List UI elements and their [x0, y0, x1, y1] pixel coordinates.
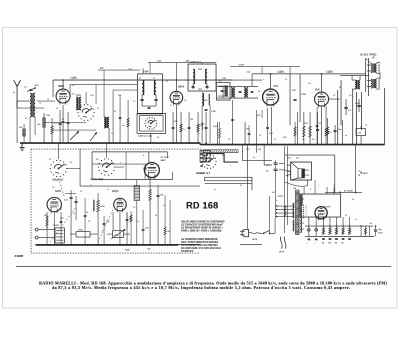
- svg-text:1n: 1n: [355, 219, 357, 221]
- svg-text:1,5K: 1,5K: [128, 69, 133, 71]
- svg-text:6AQ5: 6AQ5: [112, 190, 119, 193]
- svg-text:47n: 47n: [308, 83, 311, 85]
- svg-text:50: 50: [155, 215, 157, 217]
- svg-text:47: 47: [240, 185, 242, 187]
- svg-text:47: 47: [139, 78, 141, 80]
- svg-text:1n: 1n: [170, 105, 172, 107]
- svg-text:0,5: 0,5: [349, 95, 352, 97]
- svg-text:1n: 1n: [302, 139, 304, 141]
- svg-text:6V6: 6V6: [315, 89, 320, 92]
- svg-text:5-25: 5-25: [34, 85, 39, 87]
- svg-text:TM: TM: [293, 188, 296, 190]
- svg-text:x: x: [263, 79, 264, 81]
- svg-text:220K: 220K: [301, 94, 307, 96]
- svg-text:2°MF 10,7: 2°MF 10,7: [190, 62, 201, 64]
- svg-text:744: 744: [37, 124, 40, 126]
- svg-text:350V: 350V: [378, 233, 383, 235]
- svg-text:5n: 5n: [274, 139, 276, 141]
- svg-text:S3: S3: [96, 159, 98, 161]
- svg-text:RETE: RETE: [279, 252, 285, 254]
- svg-text:3-30: 3-30: [90, 95, 94, 97]
- svg-text:0,5M: 0,5M: [114, 235, 119, 237]
- svg-text:2n: 2n: [253, 157, 255, 159]
- svg-text:2n: 2n: [183, 129, 185, 131]
- svg-text:RD 168: RD 168: [186, 201, 218, 211]
- svg-text:STADI ALT.: STADI ALT.: [52, 179, 64, 182]
- svg-text:0,02: 0,02: [287, 165, 291, 167]
- svg-text:S1: S1: [49, 159, 51, 161]
- svg-text:x: x: [318, 185, 319, 187]
- svg-text:6AV6: 6AV6: [55, 190, 62, 193]
- svg-text:6AF7: 6AF7: [161, 159, 167, 162]
- svg-text:2n: 2n: [258, 91, 260, 93]
- svg-text:4n: 4n: [352, 199, 354, 201]
- svg-text:0,5: 0,5: [72, 85, 75, 87]
- svg-text:315: 315: [247, 72, 250, 74]
- svg-text:6T8: 6T8: [274, 85, 279, 88]
- svg-text:2n: 2n: [90, 185, 92, 187]
- svg-text:L5: L5: [97, 108, 99, 110]
- svg-text:4,7: 4,7: [133, 101, 136, 103]
- svg-text:5n: 5n: [73, 213, 75, 215]
- svg-text:x: x: [230, 165, 231, 167]
- svg-text:6BE6: 6BE6: [58, 85, 65, 88]
- svg-text:a: a: [120, 162, 121, 164]
- svg-text:25: 25: [365, 125, 367, 127]
- svg-text:3M: 3M: [258, 149, 261, 151]
- svg-text:FONO: FONO: [53, 225, 59, 227]
- svg-text:x: x: [199, 133, 200, 135]
- svg-text:1M: 1M: [44, 215, 47, 217]
- svg-text:50: 50: [86, 212, 88, 214]
- svg-text:6BA6: 6BA6: [178, 86, 185, 89]
- svg-text:da 87,5 a 93,5 Mc/s. Media fre: da 87,5 a 93,5 Mc/s. Media frequenza a 4…: [52, 285, 350, 290]
- svg-text:50: 50: [25, 118, 27, 120]
- svg-text:S2: S2: [70, 162, 72, 164]
- svg-text:1n: 1n: [111, 133, 113, 135]
- svg-text:16μ: 16μ: [338, 129, 341, 131]
- svg-text:25μ: 25μ: [106, 221, 109, 223]
- svg-text:OHM x 1000; M = OHM x 1.000.00: OHM x 1000; M = OHM x 1.000.000): [181, 230, 221, 233]
- svg-text:47: 47: [114, 111, 116, 113]
- svg-text:b: b: [143, 155, 144, 157]
- svg-text:220: 220: [283, 137, 286, 139]
- svg-text:5: 5: [310, 189, 311, 191]
- svg-text:3n: 3n: [163, 205, 165, 207]
- svg-text:0,02: 0,02: [269, 133, 273, 135]
- svg-text:0,1: 0,1: [319, 123, 322, 125]
- svg-text:15: 15: [219, 81, 221, 83]
- svg-text:47: 47: [166, 81, 168, 83]
- svg-text:+125V: +125V: [70, 77, 77, 80]
- svg-text:0,5: 0,5: [52, 187, 55, 189]
- svg-text:+AB: +AB: [185, 59, 190, 62]
- svg-text:LP: LP: [372, 58, 375, 60]
- svg-text:47K: 47K: [292, 90, 296, 92]
- svg-text:1n: 1n: [107, 189, 109, 191]
- svg-text:+250V: +250V: [277, 71, 284, 74]
- svg-text:140V: 140V: [363, 173, 369, 175]
- svg-text:0,1: 0,1: [122, 125, 125, 127]
- svg-text:+250V: +250V: [326, 71, 333, 74]
- svg-text:RETE: RETE: [252, 239, 258, 241]
- svg-text:25: 25: [46, 227, 48, 229]
- svg-text:1°MF: 1°MF: [143, 72, 149, 74]
- svg-text:47: 47: [259, 135, 261, 137]
- svg-text:GT 65-P: GT 65-P: [161, 157, 170, 159]
- svg-text:TM: TM: [328, 243, 331, 245]
- svg-text:3°MF 10,7+455: 3°MF 10,7+455: [138, 136, 153, 138]
- svg-text:AL TELAIO: AL TELAIO: [344, 190, 354, 193]
- svg-text:455: 455: [204, 100, 207, 102]
- svg-text:C4: C4: [56, 108, 58, 110]
- svg-text:1M: 1M: [160, 194, 163, 196]
- svg-text:4,7: 4,7: [133, 207, 136, 209]
- svg-text:AL ALT. PARL.: AL ALT. PARL.: [360, 53, 377, 57]
- svg-text:1n: 1n: [214, 189, 216, 191]
- svg-text:12: 12: [153, 78, 155, 80]
- svg-text:300: 300: [19, 127, 22, 129]
- svg-text:0,05: 0,05: [145, 228, 149, 230]
- svg-text:0,01: 0,01: [64, 200, 68, 202]
- svg-text:6,3V: 6,3V: [157, 60, 162, 62]
- svg-text:1M: 1M: [190, 119, 193, 121]
- svg-text:47: 47: [60, 209, 62, 211]
- svg-text:25: 25: [80, 191, 82, 193]
- svg-text:C2: C2: [39, 103, 41, 105]
- svg-text:20 000 Ω/V: 20 000 Ω/V: [180, 250, 194, 253]
- svg-text:+105V: +105V: [238, 64, 245, 66]
- svg-text:25: 25: [345, 215, 347, 217]
- svg-text:22: 22: [285, 79, 287, 81]
- svg-text:25: 25: [47, 99, 49, 101]
- svg-text:470K: 470K: [100, 206, 105, 208]
- svg-text:AL PARL.: AL PARL.: [195, 172, 206, 175]
- svg-text:F1008: F1008: [15, 254, 24, 258]
- svg-text:25: 25: [228, 139, 230, 141]
- svg-text:25: 25: [333, 95, 335, 97]
- svg-text:1n: 1n: [137, 221, 139, 223]
- svg-text:G2: G2: [184, 100, 186, 102]
- svg-text:4n: 4n: [345, 135, 347, 137]
- svg-text:100: 100: [167, 231, 170, 233]
- svg-text:2n: 2n: [333, 185, 335, 187]
- svg-text:5Y3GT: 5Y3GT: [324, 207, 331, 209]
- svg-text:x: x: [102, 230, 103, 232]
- svg-text:B1: B1: [339, 87, 341, 89]
